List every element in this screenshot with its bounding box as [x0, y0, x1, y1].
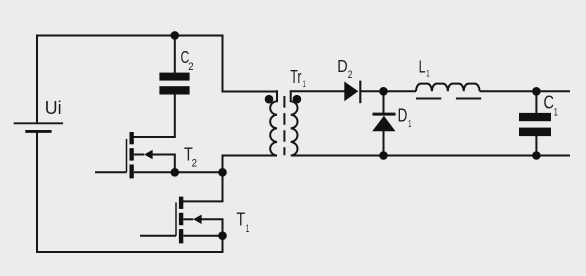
wire top right drop to primary [223, 35, 278, 92]
transformer Tr1 primary polarity dot [265, 95, 274, 104]
wire bottom rail [37, 132, 223, 253]
label T2 [184, 144, 197, 170]
node C1 top junction [532, 87, 541, 96]
svg-text:L: L [419, 57, 426, 77]
svg-text:1: 1 [426, 69, 429, 79]
node D2 cathode junction [379, 87, 388, 96]
svg-text:1: 1 [554, 107, 558, 119]
transformer Tr1 core [283, 96, 285, 155]
wire T1 gate stub [140, 235, 176, 237]
wire T2 gate stub [95, 171, 127, 173]
transformer Tr1 secondary polarity dot [293, 95, 302, 104]
svg-text:T: T [236, 209, 245, 230]
wire D1 branch upper [383, 91, 385, 113]
label D2 [337, 56, 352, 81]
wire L1 to C1 top and right end [480, 90, 570, 92]
node C1 bottom junction [532, 151, 541, 160]
wire C2 branch upper [174, 36, 176, 74]
transistor T1 [176, 197, 202, 244]
transformer Tr1 secondary winding [291, 90, 298, 155]
label D1 [398, 104, 412, 130]
wire T1 body to junction [201, 219, 223, 236]
svg-text:1: 1 [246, 223, 250, 235]
wire D2 cathode to L1 [361, 90, 417, 92]
svg-text:C: C [544, 92, 555, 113]
label C2 [181, 47, 194, 73]
wire C2 branch lower to T2 drain [133, 94, 175, 137]
svg-text:D: D [398, 104, 408, 125]
wire T2 body to junction [152, 155, 175, 173]
transformer Tr1 primary winding [270, 90, 277, 155]
node top rail C2 branch [171, 31, 180, 40]
wire secondary bottom rail [291, 155, 570, 157]
inductor L1 [416, 84, 480, 92]
label L1 [419, 57, 430, 79]
svg-text:Tr: Tr [290, 66, 301, 87]
node D1 anode junction [379, 151, 388, 160]
wire mid junction column [223, 156, 278, 202]
label Tr1 [290, 66, 306, 90]
wire secondary top lead [291, 90, 345, 92]
wire C1 branch lower [535, 136, 537, 156]
wire T1 source row [184, 235, 223, 237]
wire T2 source row [134, 171, 223, 173]
capacitor C2 [159, 73, 189, 95]
svg-text:1: 1 [408, 119, 411, 130]
wire C1 branch upper [535, 91, 537, 113]
label T1 [236, 209, 249, 235]
svg-text:2: 2 [188, 61, 193, 73]
wire D1 branch lower [383, 131, 385, 156]
svg-text:2: 2 [348, 69, 353, 81]
node T1 source junction [218, 231, 227, 240]
wire T1 drain row [183, 200, 224, 202]
wire battery top lead [37, 36, 223, 124]
diode D1 [372, 114, 395, 131]
svg-text:D: D [337, 56, 347, 76]
transistor T2 [127, 132, 175, 178]
svg-text:1: 1 [303, 79, 306, 90]
capacitor C1 [519, 113, 551, 136]
battery Ui [14, 123, 63, 131]
svg-text:Ui: Ui [45, 97, 62, 118]
node T2 source junction [171, 168, 180, 177]
diode D2 [344, 81, 360, 104]
svg-text:2: 2 [192, 158, 197, 170]
label C1 [544, 92, 558, 119]
inductor L1 core bars [416, 98, 481, 100]
node primary bottom junction [218, 168, 227, 177]
